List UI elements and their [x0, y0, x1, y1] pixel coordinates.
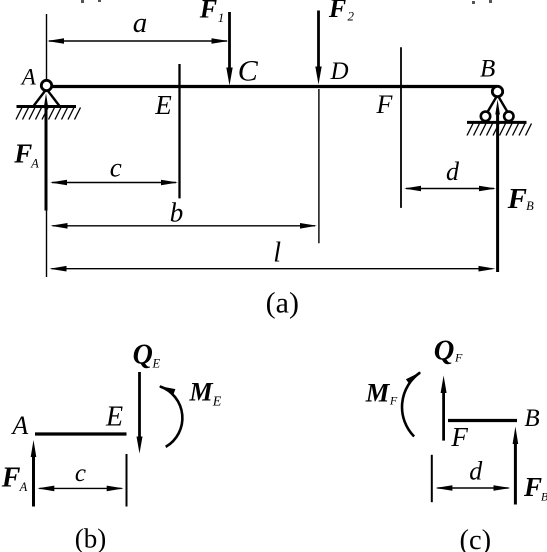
svg-text:F: F: [13, 138, 32, 168]
force F1: [226, 12, 232, 86]
svg-text:E: E: [105, 402, 123, 433]
svg-text:B: B: [541, 490, 547, 504]
svg-text:F: F: [389, 393, 398, 407]
svg-text:F: F: [1, 463, 21, 494]
ground at A: [17, 105, 77, 108]
reaction FB (c): [513, 427, 519, 505]
svg-text:F: F: [376, 90, 394, 119]
svg-text:E: E: [154, 90, 172, 120]
shear QE: [137, 372, 143, 454]
svg-text:A: A: [30, 157, 39, 171]
dimension b: [51, 223, 318, 229]
svg-text:d: d: [469, 457, 483, 486]
extension line at F (c): [431, 455, 433, 502]
moment MF arc: [402, 372, 421, 437]
svg-text:D: D: [329, 58, 348, 85]
svg-text:F: F: [523, 472, 542, 502]
svg-text:(a): (a): [266, 286, 299, 319]
svg-text:B: B: [480, 56, 495, 83]
top edge artifacts: [81, 0, 492, 4]
hatching at A: [16, 108, 81, 120]
svg-text:F: F: [328, 0, 346, 23]
hatching at B: [467, 124, 532, 136]
svg-text:M: M: [188, 378, 213, 407]
svg-text:A: A: [20, 64, 37, 89]
moment ME arc: [159, 386, 183, 447]
section line F: [400, 47, 402, 208]
svg-text:C: C: [238, 55, 259, 88]
svg-text:F: F: [454, 351, 463, 365]
dimension d: [404, 186, 496, 192]
dimension a: [47, 38, 229, 44]
dimension d (c): [435, 485, 510, 491]
svg-text:E: E: [151, 356, 160, 370]
svg-text:c: c: [75, 460, 86, 487]
svg-text:F: F: [507, 183, 527, 215]
dimension c: [50, 180, 178, 186]
svg-text:B: B: [524, 405, 539, 432]
ground at B: [467, 121, 527, 124]
extension below FA: [46, 211, 48, 278]
svg-text:b: b: [170, 198, 184, 228]
extension line at E (b): [126, 454, 128, 507]
svg-text:Q: Q: [133, 340, 153, 371]
beam AB: [47, 85, 497, 88]
svg-text:1: 1: [218, 10, 225, 25]
svg-text:l: l: [273, 237, 281, 268]
force F2: [315, 11, 321, 85]
svg-text:Q: Q: [434, 335, 455, 366]
svg-text:F: F: [450, 422, 468, 452]
svg-text:(c): (c): [459, 525, 491, 552]
svg-text:F: F: [199, 0, 217, 24]
support A pin: [34, 80, 60, 106]
svg-text:M: M: [365, 378, 391, 408]
beam AE (b): [35, 432, 127, 435]
svg-text:(b): (b): [75, 524, 106, 552]
shear QF: [441, 376, 447, 441]
beam FB (c): [448, 419, 517, 422]
svg-text:A: A: [19, 480, 28, 494]
svg-text:B: B: [526, 199, 534, 213]
reaction FA (b): [31, 440, 37, 507]
dimension c (b): [37, 486, 123, 492]
reaction FA: [44, 93, 49, 210]
reaction FB: [495, 100, 500, 273]
svg-text:E: E: [212, 394, 222, 409]
svg-text:a: a: [133, 7, 148, 39]
svg-text:d: d: [446, 157, 460, 186]
svg-text:A: A: [10, 411, 28, 440]
support B roller: [481, 86, 514, 121]
extension line above A: [46, 14, 48, 80]
section line E: [178, 64, 180, 198]
dimension l: [50, 266, 496, 272]
extension below F2: [318, 89, 320, 243]
svg-text:2: 2: [347, 9, 354, 24]
svg-text:c: c: [110, 152, 122, 182]
